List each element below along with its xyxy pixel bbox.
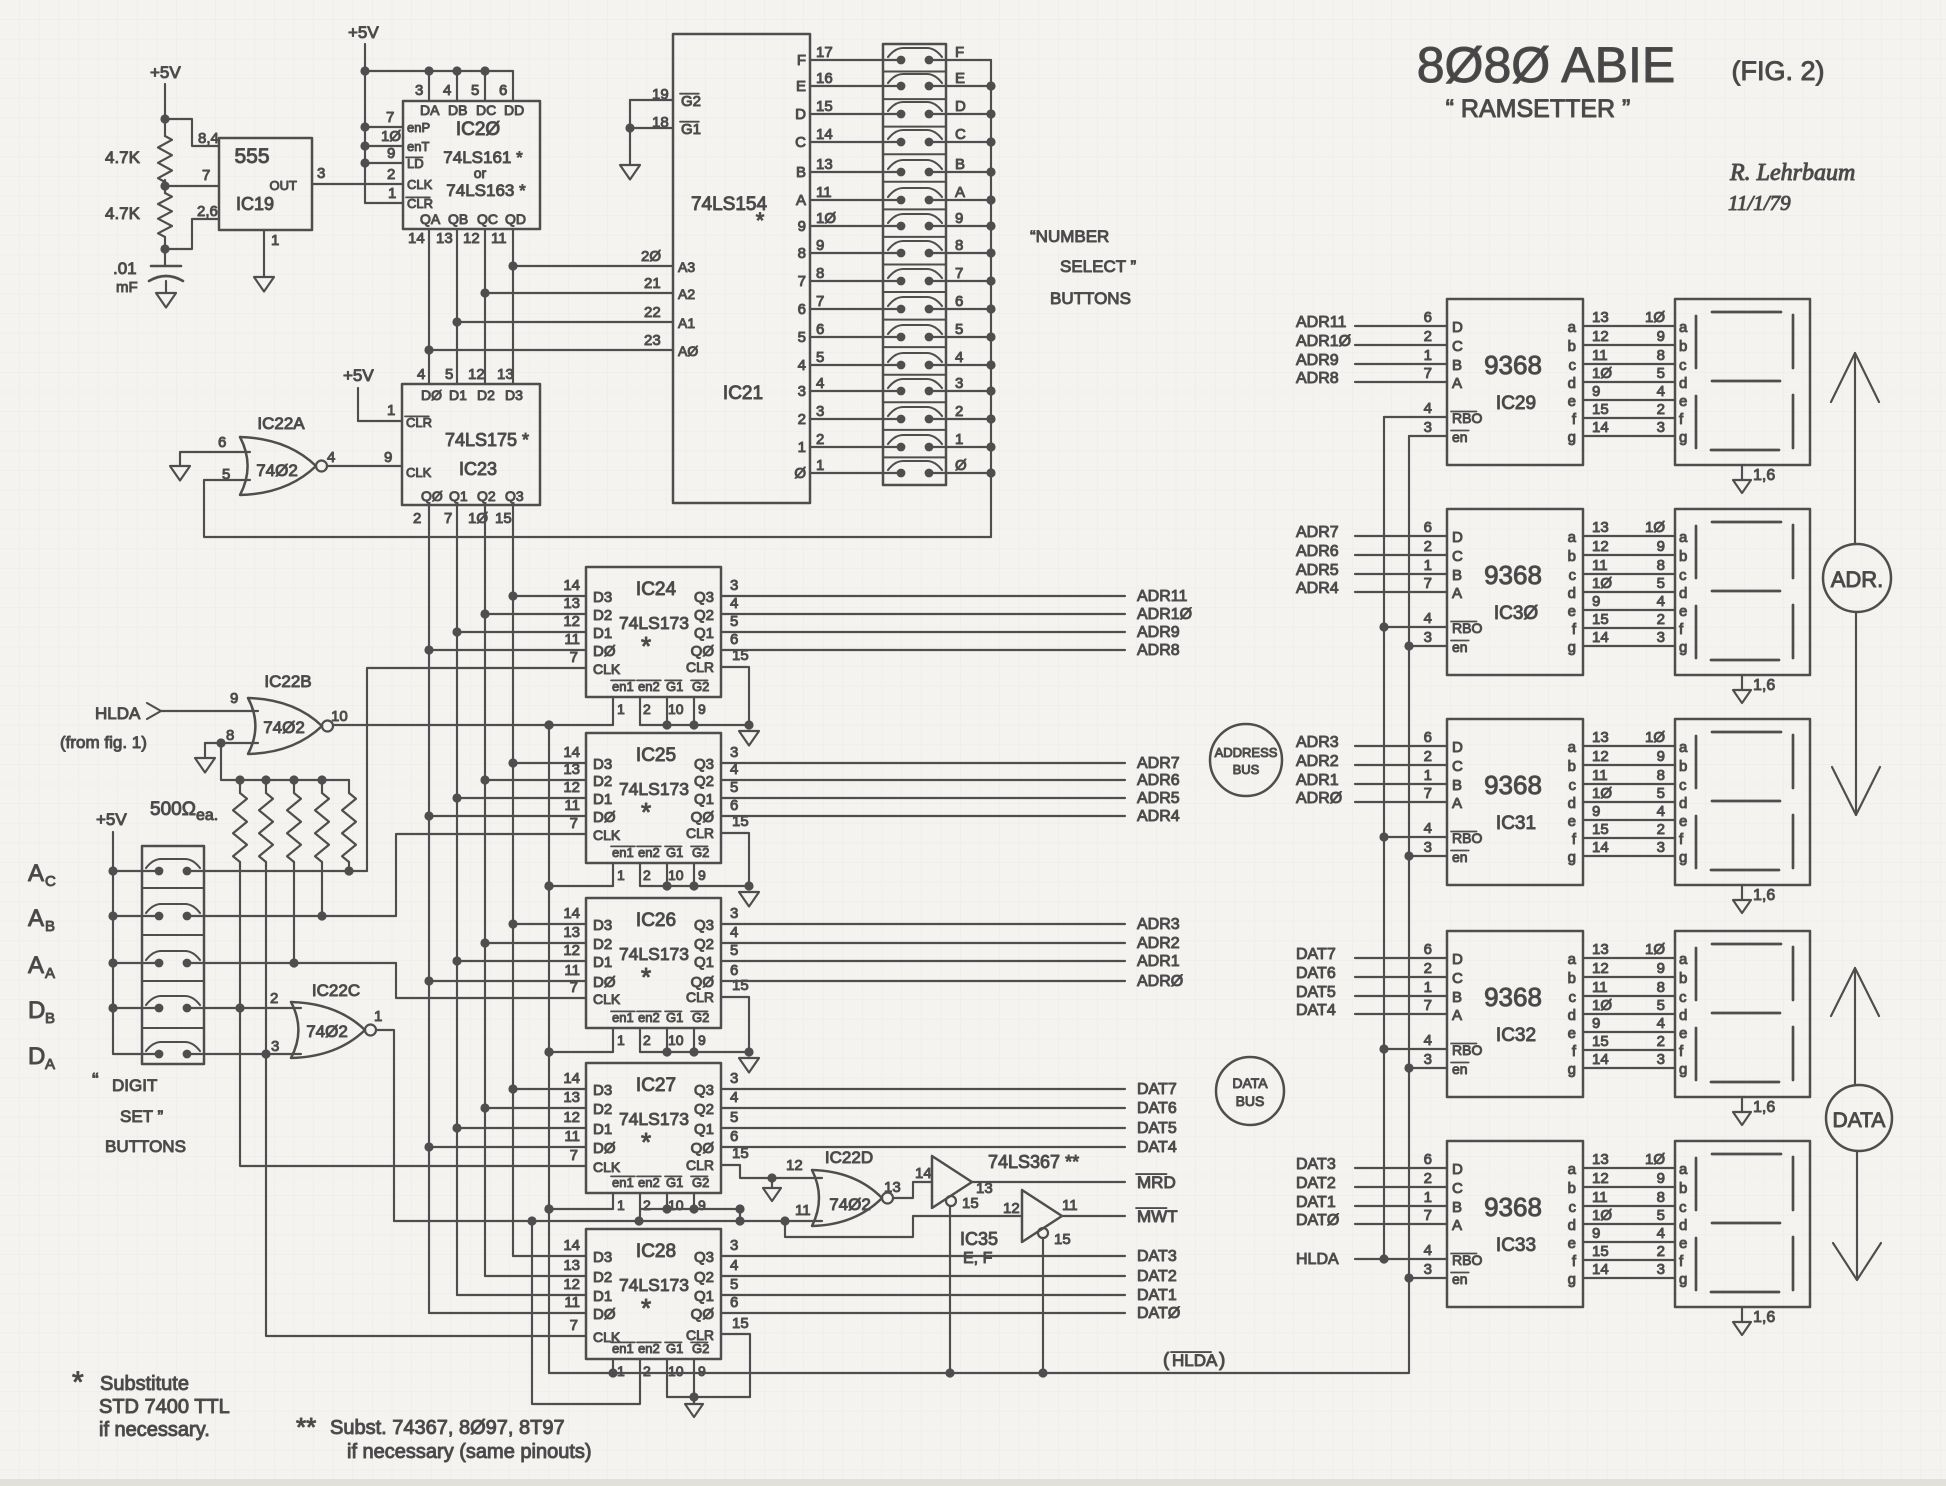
svg-text:*: * bbox=[72, 1366, 84, 1399]
pushbutton switch 3 bbox=[888, 375, 991, 395]
node AB digit row bbox=[28, 905, 159, 935]
IC23 74LS175 latch bbox=[402, 366, 540, 527]
svg-text:Q2: Q2 bbox=[694, 1101, 714, 1118]
svg-text:IC22D: IC22D bbox=[825, 1148, 873, 1167]
svg-text:CLR: CLR bbox=[686, 825, 714, 841]
svg-text:1Ø: 1Ø bbox=[1592, 365, 1612, 382]
svg-text:12: 12 bbox=[1003, 1200, 1020, 1217]
svg-text:IC25: IC25 bbox=[636, 745, 676, 766]
svg-text:8: 8 bbox=[955, 237, 963, 254]
svg-text:c: c bbox=[1679, 1199, 1687, 1216]
svg-text:IC23: IC23 bbox=[459, 459, 497, 479]
svg-text:QA: QA bbox=[420, 211, 441, 227]
pushbutton switch 1 bbox=[888, 431, 991, 451]
svg-text:4: 4 bbox=[1424, 820, 1432, 837]
svg-text:D1: D1 bbox=[593, 1121, 612, 1138]
svg-text:13: 13 bbox=[1592, 941, 1609, 958]
svg-text:CLK: CLK bbox=[593, 991, 621, 1007]
IC25 74LS173 latch bbox=[563, 733, 748, 883]
display DS1 seven-segment bbox=[1675, 299, 1810, 465]
svg-text:4: 4 bbox=[443, 82, 451, 99]
IC3Ø 9368 decoder/driver bbox=[1424, 509, 1583, 675]
svg-text:QØ: QØ bbox=[691, 809, 715, 826]
svg-text:8: 8 bbox=[1657, 347, 1665, 364]
svg-text:IC32: IC32 bbox=[1496, 1025, 1536, 1046]
svg-text:A: A bbox=[45, 965, 55, 982]
pushbutton switch 9 bbox=[888, 210, 991, 230]
wire MWT output bbox=[1062, 1207, 1178, 1226]
node HLDA (from fig. 1) bbox=[60, 703, 161, 752]
resistor R2 4.7K bbox=[105, 193, 172, 237]
svg-text:12: 12 bbox=[1592, 748, 1609, 765]
svg-text:1: 1 bbox=[955, 431, 963, 448]
svg-text:G2: G2 bbox=[692, 1341, 709, 1356]
svg-text:DATA: DATA bbox=[1232, 1075, 1268, 1091]
svg-text:E: E bbox=[796, 78, 806, 95]
svg-text:11: 11 bbox=[564, 797, 580, 814]
ground (display DS1 pins 1,6) bbox=[1733, 465, 1775, 493]
svg-text:9: 9 bbox=[1657, 538, 1665, 555]
svg-text:2: 2 bbox=[1424, 1170, 1432, 1187]
svg-text:e: e bbox=[1679, 1025, 1687, 1042]
svg-text:Q3: Q3 bbox=[694, 917, 714, 934]
svg-text:DAT7: DAT7 bbox=[1137, 1081, 1177, 1098]
svg-text:LD: LD bbox=[407, 156, 424, 171]
buffer IC35 E,F 74LS367 bbox=[960, 1190, 1078, 1267]
svg-text:g: g bbox=[1679, 1061, 1687, 1078]
svg-text:1,6: 1,6 bbox=[1753, 1099, 1775, 1116]
svg-text:15: 15 bbox=[962, 1195, 979, 1212]
svg-text:15: 15 bbox=[1592, 821, 1609, 838]
svg-text:Q2: Q2 bbox=[694, 607, 714, 624]
svg-text:g: g bbox=[1568, 639, 1576, 656]
svg-text:e: e bbox=[1568, 393, 1576, 410]
svg-text:4: 4 bbox=[1657, 803, 1665, 820]
svg-text:5: 5 bbox=[798, 329, 806, 346]
svg-text:*: * bbox=[641, 1293, 651, 1323]
svg-text:5: 5 bbox=[955, 321, 963, 338]
svg-text:3: 3 bbox=[1424, 629, 1432, 646]
svg-text:3: 3 bbox=[1424, 419, 1432, 436]
svg-text:4: 4 bbox=[730, 1089, 738, 1106]
node AA digit row bbox=[28, 952, 159, 982]
svg-text:a: a bbox=[1679, 739, 1688, 756]
svg-text:C: C bbox=[1452, 970, 1463, 987]
svg-text:CLR: CLR bbox=[406, 415, 432, 430]
svg-text:c: c bbox=[1569, 357, 1577, 374]
svg-text:G2: G2 bbox=[692, 679, 709, 694]
svg-text:8: 8 bbox=[1657, 767, 1665, 784]
ground (IC28 G pins) bbox=[685, 1397, 703, 1417]
svg-text:C: C bbox=[1452, 548, 1463, 565]
svg-text:8: 8 bbox=[1657, 1189, 1665, 1206]
svg-text:9: 9 bbox=[230, 690, 238, 707]
wire QB bus (IC20 to IC23 D1) bbox=[452, 229, 461, 384]
svg-text:1: 1 bbox=[617, 1363, 625, 1379]
svg-text:D3: D3 bbox=[505, 387, 523, 403]
svg-text:Q1: Q1 bbox=[449, 488, 468, 504]
svg-text:12: 12 bbox=[786, 1157, 803, 1174]
svg-text:D1: D1 bbox=[449, 387, 467, 403]
svg-text:D: D bbox=[28, 997, 45, 1024]
svg-text:g: g bbox=[1568, 1061, 1576, 1078]
svg-text:1Ø: 1Ø bbox=[1592, 1207, 1612, 1224]
svg-text:c: c bbox=[1679, 989, 1687, 1006]
svg-text:ADR8: ADR8 bbox=[1137, 642, 1180, 659]
resistor R3 500 ohm bbox=[233, 780, 247, 866]
svg-text:13: 13 bbox=[1592, 519, 1609, 536]
svg-text:F: F bbox=[955, 44, 964, 61]
svg-text:D: D bbox=[1452, 739, 1463, 756]
svg-text:3: 3 bbox=[816, 403, 824, 420]
svg-text:9: 9 bbox=[798, 218, 806, 235]
svg-text:9: 9 bbox=[1657, 1170, 1665, 1187]
wire IC25 en1 line bbox=[544, 863, 613, 891]
svg-text:6: 6 bbox=[218, 434, 226, 451]
note substitute 74367 bbox=[296, 1412, 592, 1463]
svg-text:en1: en1 bbox=[612, 1175, 634, 1190]
svg-text:14: 14 bbox=[816, 126, 833, 143]
svg-text:CLK: CLK bbox=[593, 1159, 621, 1175]
svg-text:6: 6 bbox=[798, 301, 806, 318]
wire IC32 segment outputs a-g bbox=[1583, 941, 1675, 1068]
svg-text:74LS367 **: 74LS367 ** bbox=[988, 1152, 1079, 1172]
wires IC21 outputs to switches bbox=[810, 60, 901, 473]
svg-text:D: D bbox=[1452, 1161, 1463, 1178]
svg-text:2: 2 bbox=[798, 411, 806, 428]
node ADDRESS BUS bbox=[1210, 724, 1282, 796]
svg-text:7: 7 bbox=[798, 273, 806, 290]
svg-text:QØ: QØ bbox=[691, 643, 715, 660]
svg-text:5: 5 bbox=[1657, 785, 1665, 802]
svg-text:13: 13 bbox=[436, 230, 453, 247]
svg-text:14: 14 bbox=[1592, 839, 1609, 856]
svg-text:1Ø: 1Ø bbox=[1592, 575, 1612, 592]
svg-text:14: 14 bbox=[1592, 1051, 1609, 1068]
svg-text:2,6: 2,6 bbox=[197, 203, 218, 220]
svg-text:STD 7400 TTL: STD 7400 TTL bbox=[99, 1396, 230, 1418]
svg-text:AØ: AØ bbox=[678, 343, 698, 359]
svg-text:14: 14 bbox=[563, 905, 580, 922]
svg-text:D: D bbox=[1452, 951, 1463, 968]
svg-text:*: * bbox=[641, 797, 651, 827]
svg-text:11: 11 bbox=[795, 1202, 811, 1219]
svg-text:.01: .01 bbox=[113, 259, 137, 278]
display DS5 seven-segment bbox=[1675, 1141, 1810, 1307]
svg-text:9368: 9368 bbox=[1484, 982, 1542, 1012]
svg-text:IC35: IC35 bbox=[960, 1229, 998, 1249]
svg-text:6: 6 bbox=[730, 797, 738, 814]
svg-text:b: b bbox=[1679, 1180, 1687, 1197]
svg-text:a: a bbox=[1568, 529, 1577, 546]
svg-text:c: c bbox=[1679, 357, 1687, 374]
svg-text:1: 1 bbox=[617, 701, 625, 717]
wire IC29 inputs ADR11..ADR8 bbox=[1296, 314, 1447, 387]
pushbutton switch B bbox=[888, 156, 991, 176]
svg-text:D1: D1 bbox=[593, 625, 612, 642]
svg-text:“: “ bbox=[92, 1070, 99, 1092]
svg-text:ADRØ: ADRØ bbox=[1296, 790, 1342, 807]
IC22A 7402 NOR gate bbox=[218, 414, 335, 495]
pushbutton switch E bbox=[888, 70, 991, 90]
svg-text:4: 4 bbox=[1657, 1015, 1665, 1032]
svg-text:74Ø2: 74Ø2 bbox=[306, 1022, 348, 1041]
svg-text:if necessary (same pinouts): if necessary (same pinouts) bbox=[347, 1441, 592, 1463]
svg-text:Q3: Q3 bbox=[694, 589, 714, 606]
svg-text:1: 1 bbox=[617, 1032, 625, 1048]
svg-text:ADDRESS: ADDRESS bbox=[1215, 745, 1278, 760]
svg-text:e: e bbox=[1568, 1025, 1576, 1042]
svg-text:13: 13 bbox=[563, 924, 580, 941]
svg-text:MRD: MRD bbox=[1137, 1173, 1176, 1192]
svg-text:2: 2 bbox=[955, 403, 963, 420]
display DS3 seven-segment bbox=[1675, 719, 1810, 885]
svg-text:a: a bbox=[1568, 951, 1577, 968]
svg-text:ADR8: ADR8 bbox=[1296, 370, 1339, 387]
svg-text:BUS: BUS bbox=[1233, 762, 1260, 777]
svg-text:Q3: Q3 bbox=[694, 1249, 714, 1266]
svg-text:12: 12 bbox=[1592, 538, 1609, 555]
wire Q3 bus (IC23 to latches D3) bbox=[508, 505, 517, 1256]
svg-text:5: 5 bbox=[1657, 997, 1665, 1014]
wire IC22A input 5 from switch bus bbox=[204, 480, 991, 537]
svg-text:DAT1: DAT1 bbox=[1137, 1287, 1177, 1304]
svg-text:14: 14 bbox=[1592, 629, 1609, 646]
svg-text:12: 12 bbox=[563, 1109, 580, 1126]
svg-text:11: 11 bbox=[816, 184, 832, 201]
svg-text:en2: en2 bbox=[638, 679, 660, 694]
svg-text:Q3: Q3 bbox=[694, 1082, 714, 1099]
svg-text:en1: en1 bbox=[612, 1010, 634, 1025]
svg-text:9: 9 bbox=[1592, 593, 1600, 610]
svg-text:4: 4 bbox=[1657, 593, 1665, 610]
svg-text:B: B bbox=[1452, 357, 1462, 374]
resistor R7 500 ohm bbox=[342, 780, 356, 866]
svg-text:(from fig. 1): (from fig. 1) bbox=[60, 733, 147, 752]
svg-text:DAT2: DAT2 bbox=[1296, 1175, 1336, 1192]
svg-text:A3: A3 bbox=[678, 259, 695, 275]
wire IC22B output HLDA-bar rail bbox=[333, 720, 554, 1373]
svg-text:QC: QC bbox=[477, 211, 498, 227]
svg-text:D3: D3 bbox=[593, 1082, 612, 1099]
wire IC28 G1 G2 CLR to ground bbox=[667, 1334, 750, 1402]
wire IC26 outputs ADR3..ADRØ bbox=[721, 916, 1183, 990]
svg-text:8: 8 bbox=[816, 265, 824, 282]
svg-text:b: b bbox=[1568, 970, 1576, 987]
svg-text:1: 1 bbox=[1424, 1189, 1432, 1206]
svg-text:9: 9 bbox=[698, 701, 706, 717]
svg-text:13: 13 bbox=[1592, 309, 1609, 326]
svg-text:e: e bbox=[1679, 603, 1687, 620]
wire DB row to IC27 CLK bbox=[235, 865, 586, 1166]
svg-text:4: 4 bbox=[955, 349, 963, 366]
svg-text:5: 5 bbox=[471, 82, 479, 99]
svg-text:IC26: IC26 bbox=[636, 910, 676, 931]
svg-text:Q2: Q2 bbox=[694, 1269, 714, 1286]
svg-text:4: 4 bbox=[1657, 1225, 1665, 1242]
svg-text:10: 10 bbox=[668, 867, 684, 883]
svg-text:b: b bbox=[1679, 338, 1687, 355]
svg-text:74LS173: 74LS173 bbox=[619, 779, 689, 799]
wire QC bus (IC20 to IC23 D2) bbox=[480, 229, 489, 384]
svg-text:IC24: IC24 bbox=[636, 579, 677, 600]
svg-text:DAT1: DAT1 bbox=[1296, 1194, 1336, 1211]
svg-text:3: 3 bbox=[1657, 1051, 1665, 1068]
svg-text:4.7K: 4.7K bbox=[105, 148, 141, 167]
svg-text:e: e bbox=[1568, 603, 1576, 620]
svg-text:1,6: 1,6 bbox=[1753, 1309, 1775, 1326]
wire buffer enables to HLDA-bar line bbox=[945, 1206, 1047, 1378]
svg-text:2: 2 bbox=[1657, 401, 1665, 418]
svg-text:Q1: Q1 bbox=[694, 954, 714, 971]
svg-text:ADR2: ADR2 bbox=[1137, 935, 1180, 952]
wire R6 to AB row bbox=[321, 866, 323, 916]
pushbutton switch DA bbox=[146, 1042, 200, 1058]
wire IC28 en2 from HLDA-bar net bbox=[527, 1216, 640, 1404]
svg-text:7: 7 bbox=[1424, 997, 1432, 1014]
svg-text:10: 10 bbox=[668, 1363, 684, 1379]
title 8080 ABIE (FIG.2) bbox=[1417, 37, 1825, 123]
svg-text:QØ: QØ bbox=[421, 488, 443, 504]
node ADR bus arrow bbox=[1823, 353, 1891, 815]
svg-text:Q1: Q1 bbox=[694, 625, 714, 642]
wire IC31 inputs ADR3..ADRØ bbox=[1296, 734, 1447, 807]
svg-text:2: 2 bbox=[643, 867, 651, 883]
svg-text:G1: G1 bbox=[666, 1010, 683, 1025]
node DATA bus arrow bbox=[1826, 968, 1892, 1280]
wire IC26 en1 line bbox=[544, 1028, 613, 1057]
svg-text:QØ: QØ bbox=[691, 1306, 715, 1323]
svg-text:4: 4 bbox=[1657, 383, 1665, 400]
svg-text:1: 1 bbox=[1424, 347, 1432, 364]
svg-text:DAT3: DAT3 bbox=[1137, 1248, 1177, 1265]
svg-text:6: 6 bbox=[1424, 729, 1432, 746]
svg-text:+5V: +5V bbox=[348, 23, 379, 42]
svg-text:5: 5 bbox=[1657, 365, 1665, 382]
svg-text:15: 15 bbox=[1054, 1231, 1071, 1248]
svg-text:2Ø: 2Ø bbox=[641, 248, 661, 265]
svg-text:74LS175 *: 74LS175 * bbox=[445, 430, 529, 450]
wire IC27 en1 line bbox=[544, 1193, 613, 1214]
svg-text:DØ: DØ bbox=[421, 387, 442, 403]
svg-text:2: 2 bbox=[816, 431, 824, 448]
svg-text:D3: D3 bbox=[593, 917, 612, 934]
svg-text:7: 7 bbox=[570, 649, 578, 666]
svg-text:11: 11 bbox=[564, 631, 580, 648]
svg-text:a: a bbox=[1568, 1161, 1577, 1178]
svg-text:D3: D3 bbox=[593, 1249, 612, 1266]
wire divider mid to 555 pin 7 bbox=[160, 167, 219, 193]
svg-text:DAT3: DAT3 bbox=[1296, 1156, 1336, 1173]
svg-text:DAT2: DAT2 bbox=[1137, 1268, 1177, 1285]
svg-text:A: A bbox=[1452, 1007, 1462, 1024]
svg-text:g: g bbox=[1568, 429, 1576, 446]
wire IC3Ø segment outputs a-g bbox=[1583, 519, 1675, 646]
svg-text:IC22B: IC22B bbox=[264, 672, 311, 691]
svg-text:C: C bbox=[955, 126, 966, 143]
IC22D 7402 NOR gate bbox=[812, 1148, 901, 1226]
svg-text:b: b bbox=[1568, 1180, 1576, 1197]
svg-text:9: 9 bbox=[955, 210, 963, 227]
wire IC3Ø inputs ADR7..ADR4 bbox=[1296, 524, 1447, 597]
svg-text:CLR: CLR bbox=[407, 196, 433, 211]
svg-text:3: 3 bbox=[1424, 1051, 1432, 1068]
pushbutton switch 5 bbox=[888, 321, 991, 341]
svg-text:2: 2 bbox=[1424, 538, 1432, 555]
svg-text:b: b bbox=[1568, 548, 1576, 565]
svg-text:ADR11: ADR11 bbox=[1137, 588, 1187, 605]
svg-text:6: 6 bbox=[1424, 519, 1432, 536]
node DATA BUS bbox=[1216, 1057, 1284, 1125]
IC28 74LS173 latch bbox=[563, 1229, 748, 1379]
svg-text:CLR: CLR bbox=[686, 1157, 714, 1173]
svg-text:c: c bbox=[1569, 989, 1577, 1006]
svg-text:“ RAMSETTER ”: “ RAMSETTER ” bbox=[1446, 95, 1631, 123]
svg-text:11: 11 bbox=[564, 1128, 580, 1145]
wire QD to IC21 A3 bbox=[513, 248, 673, 266]
svg-text:enP: enP bbox=[407, 120, 430, 135]
svg-text:7: 7 bbox=[1424, 575, 1432, 592]
svg-text:1Ø: 1Ø bbox=[381, 128, 401, 145]
svg-text:B: B bbox=[45, 1010, 55, 1027]
resistor R4 500 ohm bbox=[259, 780, 273, 866]
resistor R6 500 ohm bbox=[315, 780, 329, 866]
svg-text:9: 9 bbox=[698, 1197, 706, 1213]
svg-text:ADR4: ADR4 bbox=[1137, 808, 1180, 825]
wire +5V to 555 pins 8,4 bbox=[160, 114, 219, 147]
svg-text:13: 13 bbox=[884, 1179, 901, 1196]
svg-text:10: 10 bbox=[668, 1032, 684, 1048]
svg-text:A: A bbox=[45, 1056, 55, 1073]
svg-text:9: 9 bbox=[1592, 1015, 1600, 1032]
svg-text:1: 1 bbox=[617, 867, 625, 883]
svg-text:2: 2 bbox=[1424, 748, 1432, 765]
svg-text:4: 4 bbox=[327, 449, 335, 466]
svg-text:*: * bbox=[756, 208, 765, 233]
ground (display DS5 pins 1,6) bbox=[1733, 1307, 1775, 1335]
svg-text:Q3: Q3 bbox=[694, 756, 714, 773]
svg-text:F: F bbox=[797, 52, 806, 69]
svg-text:CLK: CLK bbox=[406, 465, 432, 480]
svg-text:b: b bbox=[1679, 548, 1687, 565]
svg-text:1Ø: 1Ø bbox=[1645, 309, 1665, 326]
svg-text:3: 3 bbox=[730, 577, 738, 594]
wire AC row bbox=[187, 866, 367, 875]
svg-text:1: 1 bbox=[271, 232, 279, 249]
svg-text:D2: D2 bbox=[477, 387, 495, 403]
svg-text:1: 1 bbox=[816, 457, 824, 474]
svg-text:1: 1 bbox=[1424, 979, 1432, 996]
svg-text:C: C bbox=[45, 873, 56, 890]
svg-text:DIGIT: DIGIT bbox=[112, 1076, 157, 1095]
svg-text:2: 2 bbox=[1424, 328, 1432, 345]
ground (IC21 G1 G2) bbox=[620, 165, 640, 180]
svg-text:G1: G1 bbox=[681, 121, 701, 138]
wire IC26 D inputs from Q bus bbox=[429, 924, 586, 981]
wire IC25 outputs ADR7..ADR4 bbox=[721, 755, 1180, 825]
svg-text:3: 3 bbox=[1657, 1261, 1665, 1278]
svg-text:12: 12 bbox=[1592, 960, 1609, 977]
svg-text:D1: D1 bbox=[593, 1288, 612, 1305]
svg-text:DATØ: DATØ bbox=[1296, 1212, 1339, 1229]
svg-text:9: 9 bbox=[384, 449, 392, 466]
svg-text:CLR: CLR bbox=[686, 659, 714, 675]
IC31 9368 decoder/driver bbox=[1424, 719, 1583, 885]
svg-text:D2: D2 bbox=[593, 1269, 612, 1286]
svg-text:3: 3 bbox=[1657, 629, 1665, 646]
svg-text:en1: en1 bbox=[612, 845, 634, 860]
pushbutton switch C bbox=[888, 126, 991, 146]
